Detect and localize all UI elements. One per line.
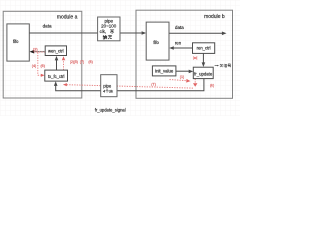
red dashed arrow init_value to fr_update (1) xyxy=(170,79,191,83)
svg-text:(4): (4) xyxy=(32,64,37,68)
fifo box module a xyxy=(7,24,29,61)
module a xyxy=(3,11,82,98)
svg-text:(5): (5) xyxy=(74,60,78,64)
red x mark below ren_ctrl xyxy=(193,57,197,60)
svg-text:(8): (8) xyxy=(88,60,93,64)
module b xyxy=(136,10,233,98)
fifo box module b xyxy=(146,22,169,60)
red dashed wen overlay (3) xyxy=(34,51,46,53)
svg-text:ren_ctrl: ren_ctrl xyxy=(197,46,211,51)
svg-text:clk: clk xyxy=(109,90,114,94)
svg-text:(k): (k) xyxy=(210,84,214,88)
wire data b: fifo b to output arrow xyxy=(169,32,227,36)
svg-text:(7): (7) xyxy=(80,60,85,64)
svg-text:20~100: 20~100 xyxy=(101,23,117,28)
svg-text:fifo: fifo xyxy=(13,39,19,44)
svg-text:module b: module b xyxy=(204,14,225,20)
svg-text:data: data xyxy=(175,25,184,30)
svg-text:fr_update: fr_update xyxy=(194,71,213,76)
wire tx_fc_ctrl up to wen_ctrl xyxy=(55,56,59,70)
red dashed branch down to tx_fc_ctrl (4)(6) xyxy=(38,53,45,77)
red dashed long line to module a (T) xyxy=(63,83,193,88)
tx_fc_ctrl box xyxy=(45,70,68,81)
svg-text:fr_update_signal: fr_update_signal xyxy=(95,108,126,113)
red step labels xyxy=(32,46,215,87)
svg-text:pipe: pipe xyxy=(103,83,112,88)
wire wen: wen_ctrl to fifo a xyxy=(30,50,46,54)
pipe 4clk box xyxy=(101,75,117,97)
wire data a: fifo a to fifo b xyxy=(29,31,146,35)
red dashed fr_update down arrow (k) xyxy=(193,79,197,87)
svg-text:data: data xyxy=(43,24,52,29)
svg-text:clk,: clk, xyxy=(100,29,106,34)
ren_ctrl box xyxy=(193,43,215,54)
wire init_value to fr_update xyxy=(176,70,193,74)
label send-signal note xyxy=(215,64,231,67)
svg-text:(1): (1) xyxy=(180,75,185,79)
svg-text:fifo: fifo xyxy=(153,40,159,45)
svg-text:ren: ren xyxy=(175,40,182,45)
wire fr_update_signal: fr_update down, left across, up into tx_fc_ctrl xyxy=(54,79,204,91)
red dashed tx_fc_ctrl up to wen_ctrl (2) xyxy=(62,56,65,70)
wen_ctrl box xyxy=(45,46,66,56)
wire ren_ctrl down to fr_update xyxy=(202,53,206,67)
svg-text:tx_fc_ctrl: tx_fc_ctrl xyxy=(48,74,64,79)
wire ren: ren_ctrl to fifo b xyxy=(169,46,192,50)
init_value box xyxy=(152,66,176,76)
svg-text:module a: module a xyxy=(57,15,78,21)
pipe 20~100 box xyxy=(98,17,120,41)
svg-text:(3): (3) xyxy=(33,46,38,51)
svg-text:(6): (6) xyxy=(40,64,45,68)
svg-text:wen_ctrl: wen_ctrl xyxy=(48,48,64,53)
svg-text:(T): (T) xyxy=(151,83,156,87)
svg-text:init_value: init_value xyxy=(155,68,174,73)
fr_update box xyxy=(193,67,213,78)
svg-text:4: 4 xyxy=(103,90,105,94)
